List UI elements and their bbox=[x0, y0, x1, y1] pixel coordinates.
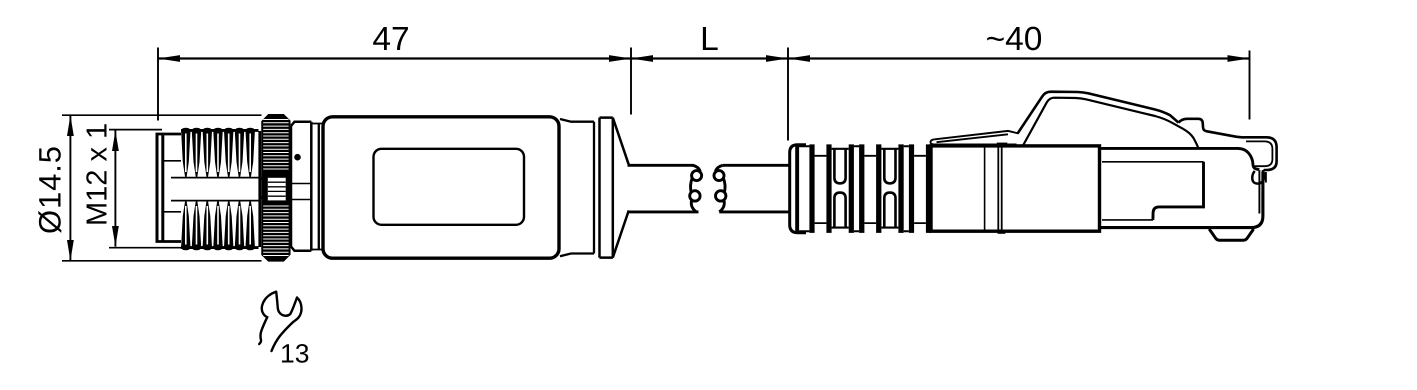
wrench icon bbox=[259, 292, 301, 351]
M12 mid collar slot lines bbox=[291, 184, 311, 200]
svg-text:L: L bbox=[700, 21, 719, 58]
arrow ~40 right bbox=[1228, 55, 1250, 62]
svg-text:13: 13 bbox=[280, 339, 309, 369]
M12 orientation dot bbox=[294, 154, 301, 161]
dim Ø14.5 extension lines bbox=[62, 115, 262, 261]
M12 body label window bbox=[374, 149, 525, 225]
RJ45 front small step bbox=[1265, 172, 1267, 183]
M12 front rim bbox=[157, 134, 163, 242]
RJ45 boot recessed grooves bbox=[815, 156, 926, 223]
cable break right squiggle bbox=[714, 171, 724, 181]
RJ45 boot flex slot pair at 840.0 bbox=[832, 149, 849, 228]
RJ45 nose top edge bbox=[1101, 148, 1259, 169]
extension line 47/L boundary bbox=[630, 48, 632, 115]
M12 thread crest lines bbox=[181, 130, 259, 247]
RJ45 boot plain gaps outline bbox=[799, 146, 909, 231]
RJ45 latch catch tooth bbox=[1179, 119, 1245, 138]
arrow L left bbox=[631, 55, 653, 62]
M12 mid collar bbox=[291, 122, 311, 251]
svg-text:Ø14.5: Ø14.5 bbox=[32, 146, 67, 234]
RJ45 shield seam pair bbox=[998, 146, 1001, 231]
RJ45 latch arm lower edge bbox=[1023, 98, 1199, 149]
M12 thread root slot lines bbox=[171, 178, 261, 201]
RJ45 latch front hook inner bbox=[1246, 141, 1272, 166]
M12 shank step lines bbox=[163, 161, 181, 212]
dim Ø14.5 line bbox=[69, 115, 71, 261]
dim M12x1 line bbox=[114, 131, 116, 247]
M12 tail cone bbox=[613, 118, 629, 258]
RJ45 latch front hook outer bbox=[1244, 137, 1277, 170]
arrow Ø14.5 bottom bbox=[67, 240, 74, 261]
M12 body bbox=[323, 117, 559, 258]
extension line ~40 right end bbox=[1249, 51, 1251, 120]
RJ45 nose inner top line bbox=[1102, 161, 1204, 163]
RJ45 nose inner bottom line bbox=[1102, 219, 1153, 221]
cable break left squiggle bbox=[692, 171, 702, 181]
RJ45 shield body bbox=[931, 146, 1100, 231]
M12 thread end line bbox=[258, 131, 261, 247]
RJ45 shield seam line bbox=[984, 146, 986, 231]
RJ45 latch front hook curl bbox=[1252, 170, 1264, 184]
arrow 47 left bbox=[158, 55, 180, 62]
extension line L/~40 boundary bbox=[787, 48, 789, 141]
RJ45 boot cap bbox=[790, 145, 806, 233]
M12 thread bottom teeth bbox=[181, 201, 255, 250]
svg-text:~40: ~40 bbox=[986, 21, 1043, 58]
cable right segment bbox=[719, 165, 790, 212]
arrow M12x1 bottom bbox=[112, 226, 119, 247]
M12 collar ring bbox=[318, 124, 320, 250]
RJ45 boot cap inner bar bbox=[795, 145, 799, 233]
RJ45 boot ribs bbox=[809, 144, 931, 233]
dim M12x1 extension lines bbox=[109, 130, 184, 248]
arrow Ø14.5 top bbox=[67, 115, 74, 136]
svg-text:47: 47 bbox=[372, 21, 409, 58]
arrow L right bbox=[766, 55, 788, 62]
arrow M12x1 top bbox=[112, 131, 119, 152]
M12 knurled nut bbox=[262, 115, 290, 261]
RJ45 nose bottom edge and front wall bbox=[1101, 172, 1263, 228]
arrow 47 right bbox=[609, 55, 631, 62]
extension line left (47 start) bbox=[157, 48, 159, 121]
RJ45 nose front inner wall bbox=[1258, 170, 1260, 213]
RJ45 latch arm upper edge bbox=[1018, 92, 1179, 134]
M12 thread top teeth bbox=[181, 128, 255, 177]
RJ45 seam crimp marks bbox=[997, 143, 1008, 148]
dimension line top bbox=[158, 57, 1250, 59]
RJ45 contact window step bbox=[1153, 162, 1204, 220]
RJ45 latch tip wedge bbox=[930, 131, 1018, 145]
M12 nut knurl texture bbox=[263, 120, 288, 256]
arrow ~40 left bbox=[788, 55, 810, 62]
M12 tail ring A bbox=[560, 119, 594, 256]
cable left segment bbox=[628, 165, 699, 212]
M12 tail cap bbox=[600, 118, 613, 258]
RJ45 bottom tab bbox=[1209, 229, 1253, 240]
svg-text:M12 x 1: M12 x 1 bbox=[82, 123, 114, 226]
RJ45 boot flex slot pair at 889.9 bbox=[881, 149, 898, 228]
